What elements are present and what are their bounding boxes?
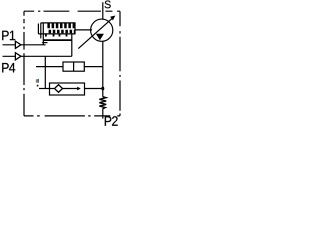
enclosure boundary top edge (dash-dot) [24,10,120,12]
valve spring band upper [47,23,74,28]
wire P4 inlet [3,55,72,57]
check valve cartridge box [50,83,85,95]
wire LS stub [36,66,63,68]
orifice block (2-cell box) [63,62,84,71]
label P2 (width 14.1) [105,116,118,126]
wire valve to pump [75,29,92,31]
wire into cartridge [39,88,55,90]
wire P4 down branch [44,56,46,88]
arrow inside cartridge [63,88,80,90]
pump circle [91,19,113,41]
wire pump down to spring [102,41,104,97]
wire P2 outlet [102,108,104,118]
priority valve body outline [38,23,75,34]
enclosure boundary left edge (dash-dot) [23,11,25,116]
wire S port [102,2,104,19]
check arrow P4 (open triangle) [15,53,21,60]
valve port stub a [45,34,47,37]
label P4 (width 13.7) [2,63,15,72]
check arrow P1 (open triangle) [15,41,21,48]
label S (width 7.2) [105,1,111,9]
wire cartridge to main line [85,88,103,90]
valve spring band lower [49,30,75,34]
enclosure boundary bottom edge (dash-dot) [24,115,120,117]
node junction check/main [101,87,104,91]
valve wall mid-left (stub below) [40,23,42,39]
valve left wall [37,24,39,34]
wire P1 inlet [3,44,46,46]
label P1 (width 12.9) [2,31,15,40]
wire underloop horizontal [43,39,72,41]
valve wall inner-left (riser to P1) [42,23,44,45]
pump flow triangle (filled) [96,34,104,41]
enclosure boundary right edge (dash-dot) [119,11,121,116]
colored test-point mark [36,79,39,87]
diamond inside cartridge [55,85,63,93]
pump variable arrow [78,17,113,48]
valve port stub d [66,34,68,37]
wire underloop lower spur [42,42,47,44]
spring on P2 line [99,97,106,109]
wire riser to P4 [71,34,73,56]
valve port stub c [59,34,61,37]
valve port stub b [53,34,55,37]
wire orifice to main line [84,66,103,68]
